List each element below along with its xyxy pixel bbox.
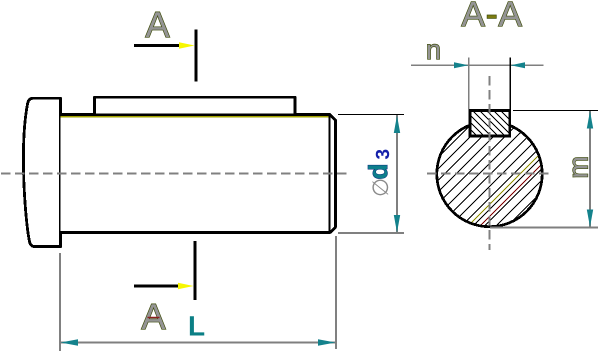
key (section view) white body <box>469 109 511 137</box>
svg-text:3: 3 <box>373 149 394 160</box>
svg-text:A-A: A-A <box>462 0 523 34</box>
yellow hatch line artifact <box>444 110 584 250</box>
dimension n arrow left <box>454 62 468 68</box>
svg-text:d: d <box>363 164 393 180</box>
dimension L extension line right <box>335 236 337 349</box>
section horizontal centerline <box>427 173 553 175</box>
svg-text:∅: ∅ <box>368 178 393 197</box>
dimension d3 arrow bottom <box>394 215 400 233</box>
dimension n extension line left <box>468 58 470 110</box>
dimension m extension line bottom <box>490 227 598 229</box>
dimension m extension line top <box>513 110 598 112</box>
svg-text:L: L <box>188 311 205 342</box>
section arrow line (top) <box>134 44 180 47</box>
dimension m arrow top <box>587 111 593 129</box>
red hatch line artifact <box>456 110 596 250</box>
dimension n arrow right <box>511 62 525 68</box>
svg-text:m: m <box>564 156 594 179</box>
svg-text:A: A <box>146 4 170 45</box>
dimension d3 line <box>396 115 398 233</box>
dimension n extension line right <box>509 58 511 110</box>
section line A (top) <box>195 30 198 82</box>
section circle hatching <box>346 110 600 250</box>
section arrow line (bottom) <box>134 284 178 287</box>
dimension n line <box>411 64 544 66</box>
shaft end cap (shoulder) <box>23 98 60 246</box>
svg-text:n: n <box>426 35 441 65</box>
yellow edge line under shaft top edge <box>61 116 330 118</box>
shaft body outline with chamfered right end <box>61 115 336 233</box>
section vertical centerline <box>489 76 491 250</box>
dimension L extension line left <box>59 253 61 351</box>
dimension L arrow left <box>61 339 79 345</box>
dimension m line <box>589 111 591 227</box>
yellow arrow (bottom) <box>178 283 194 289</box>
label diameter d3 (rotated) <box>363 149 394 197</box>
key (side view) <box>95 97 296 113</box>
key (section view) outline <box>470 111 510 137</box>
centerline (side view axis) <box>1 173 350 175</box>
section line A (bottom) <box>194 241 197 300</box>
chamfer inner line at right end <box>328 115 330 232</box>
dimension m arrow bottom <box>587 210 593 228</box>
key (section view) hatching <box>438 104 541 144</box>
dimension d3 arrow top <box>394 116 400 134</box>
label m (rotated) <box>564 156 594 179</box>
dimension d3 extension line top <box>338 114 404 116</box>
svg-text:A: A <box>142 296 166 337</box>
yellow arrow (top) <box>179 42 195 48</box>
section circle outline <box>437 121 542 226</box>
dimension L arrow right <box>318 339 336 345</box>
dimension L line <box>60 342 336 344</box>
red artifact on lower A crossbar <box>148 317 160 319</box>
dimension d3 extension line bottom <box>338 232 404 234</box>
